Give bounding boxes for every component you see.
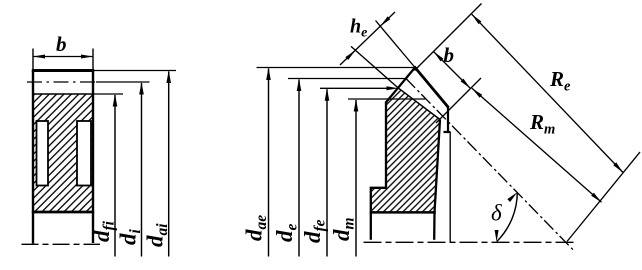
arrow d_fe bbox=[325, 88, 330, 101]
arrow h_e upper (tip at P2, points down-left) bbox=[380, 16, 390, 26]
hatched bevel body bbox=[371, 88, 440, 212]
gear left face bbox=[32, 71, 34, 244]
dimension line b bbox=[434, 52, 471, 89]
left face bbox=[385, 102, 387, 188]
dimension line d_fi bbox=[114, 95, 116, 257]
dimension line d_i bbox=[141, 83, 143, 257]
arrow R_m bottom bbox=[591, 193, 601, 202]
gear right face bbox=[92, 71, 94, 244]
extension line d_e bbox=[288, 78, 406, 80]
arrow R_e bottom bbox=[613, 162, 623, 172]
label d_fi bbox=[89, 220, 118, 242]
arrow d_e bbox=[297, 79, 302, 92]
rim inner face bbox=[434, 120, 440, 240]
hub wall below bore bbox=[370, 212, 372, 240]
arrow R_e top bbox=[472, 14, 482, 24]
root line bbox=[33, 93, 93, 95]
b inner extension / R_m terminator bbox=[436, 78, 481, 123]
apex extension line bbox=[567, 152, 640, 242]
arrow h_e lower (tip at P1, points up-right) bbox=[345, 50, 355, 60]
extension line d_m bbox=[348, 98, 426, 100]
arrow delta bottom bbox=[495, 230, 499, 242]
extension line d_i bbox=[96, 81, 150, 83]
label d_ai bbox=[143, 223, 172, 247]
arrow d_i bbox=[139, 82, 144, 95]
hub step bbox=[371, 188, 387, 212]
extension line d_fi bbox=[94, 93, 123, 95]
arrow delta top bbox=[507, 192, 517, 202]
extension line d_fe with leader arrow bbox=[320, 87, 390, 89]
web recess right (white) bbox=[77, 121, 91, 186]
tooth band (white) bbox=[399, 68, 449, 133]
web recess left (white) bbox=[37, 121, 49, 186]
dimension line b bbox=[33, 56, 93, 58]
tip cone line bbox=[414, 67, 448, 108]
h_e lower extension (root cone line extended) bbox=[351, 46, 399, 88]
arrow b inner bbox=[461, 79, 471, 89]
dimension line d_fe bbox=[326, 89, 328, 256]
pitch centerline d_i bbox=[27, 81, 96, 83]
label d_m bbox=[329, 217, 358, 241]
svg-text:δ: δ bbox=[491, 201, 502, 226]
dimension line d_m bbox=[355, 100, 357, 257]
label d_ae bbox=[242, 215, 271, 241]
inner cone edge line bbox=[449, 132, 451, 242]
hatched gear body bbox=[33, 94, 93, 212]
label d_fe bbox=[300, 219, 329, 243]
dimension line d_ai bbox=[168, 72, 170, 257]
root cone line bbox=[399, 88, 441, 119]
b outer extension / R_e terminator bbox=[415, 4, 482, 71]
axis centerline bbox=[22, 243, 101, 245]
svg-text:b: b bbox=[56, 32, 67, 56]
arrow R_m top bbox=[472, 88, 482, 97]
arrow d_ae bbox=[266, 68, 271, 81]
dimension line d_e bbox=[298, 80, 300, 257]
dimension line h_e bbox=[340, 12, 395, 65]
arrow d_ai bbox=[166, 71, 171, 84]
extension line b left bbox=[32, 49, 34, 71]
arrow d_fi bbox=[113, 94, 118, 107]
pitch cone centerline bbox=[406, 79, 573, 250]
gear tip (top) edge bbox=[32, 69, 94, 72]
dimension line R_m bbox=[472, 88, 602, 202]
h_e upper extension (tip cone line extended) bbox=[376, 21, 416, 68]
label d_e bbox=[272, 224, 301, 243]
arrow b left bbox=[33, 55, 45, 59]
back cone face bbox=[386, 68, 415, 103]
extension line d_ai bbox=[94, 70, 176, 72]
arrow b outer bbox=[434, 52, 444, 62]
bore line bbox=[32, 211, 94, 214]
bore line bbox=[370, 211, 436, 214]
dimension line R_e bbox=[472, 14, 623, 172]
label d_i bbox=[116, 229, 145, 246]
extension line b right bbox=[92, 49, 94, 71]
arrow d_m bbox=[354, 99, 359, 112]
arrow b right bbox=[81, 55, 93, 59]
extension line d_ae bbox=[257, 67, 416, 69]
svg-text:b: b bbox=[444, 43, 455, 67]
tooth inner end face bbox=[444, 107, 451, 133]
axis centerline bbox=[364, 241, 576, 243]
dimension line d_ae bbox=[268, 69, 270, 257]
angle delta arc bbox=[497, 192, 518, 241]
